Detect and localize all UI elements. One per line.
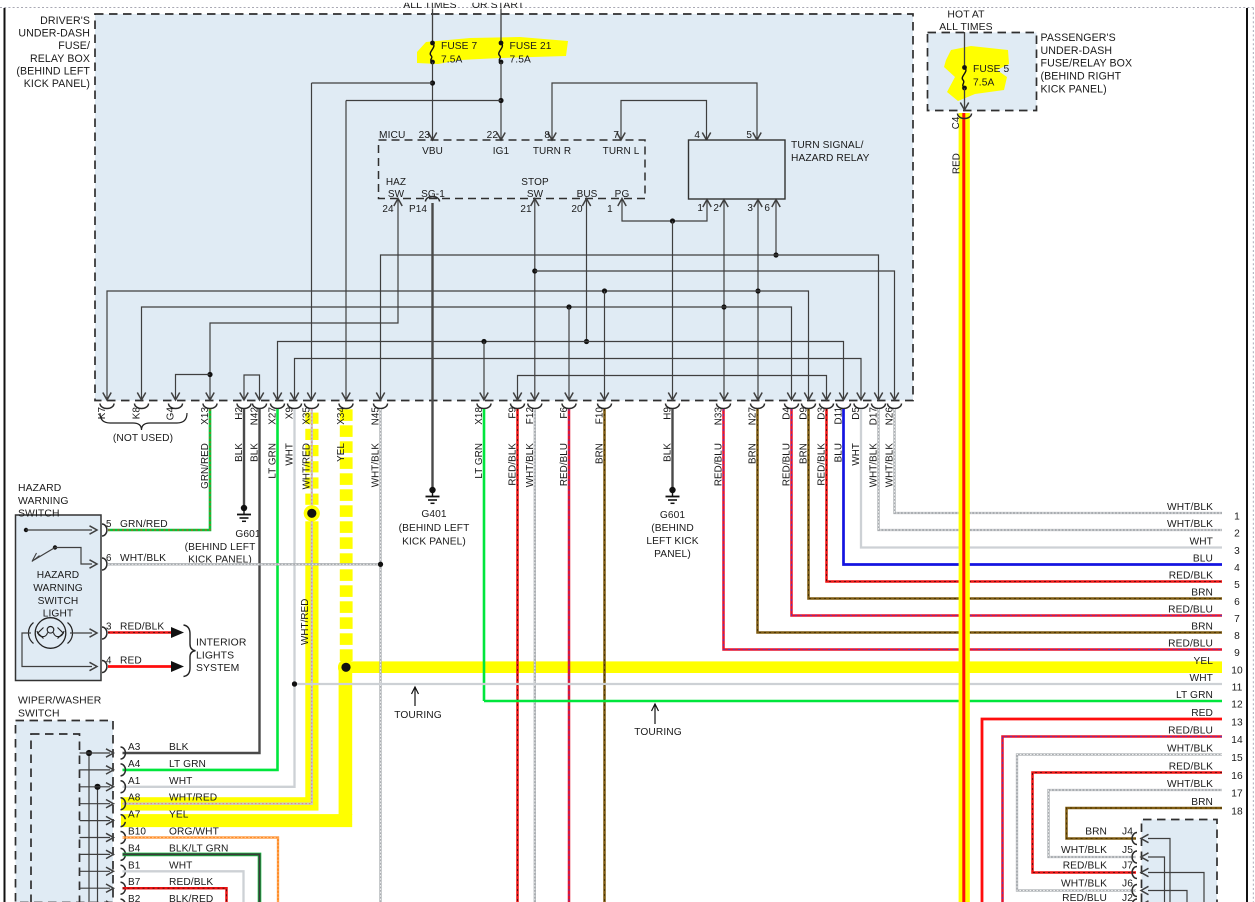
svg-text:K7: K7 [97,407,108,419]
svg-text:WHT/BLK: WHT/BLK [1167,744,1213,755]
svg-text:ALL TIMES: ALL TIMES [939,22,992,33]
connector X34 at fuse box bottom [336,404,353,462]
svg-text:TURN SIGNAL/: TURN SIGNAL/ [791,140,864,151]
highlight: X34 YEL dashed segment [340,409,353,661]
svg-text:(BEHIND LEFT: (BEHIND LEFT [399,523,470,534]
svg-text:UNDER-DASH: UNDER-DASH [1041,45,1113,57]
label: wiper/washer switch [18,696,102,720]
svg-text:J4: J4 [1122,827,1133,838]
svg-text:B1: B1 [128,860,141,871]
MICU (dashed box) [379,140,646,199]
label: driver's under-dash fuse/relay box [16,15,90,90]
svg-text:LT GRN: LT GRN [1176,690,1213,701]
svg-text:K8: K8 [132,407,143,420]
connector F12 at fuse box bottom [525,404,542,488]
wiper/washer switch (dashed boxes) [16,721,114,902]
MICU labels and pin names [379,130,640,215]
highlight: X35 WHT/RED dashed segment [305,413,318,505]
svg-text:SYSTEM: SYSTEM [196,663,239,674]
svg-text:G601: G601 [660,510,686,521]
svg-text:RED/BLK: RED/BLK [1169,762,1213,773]
svg-text:WIPER/WASHER: WIPER/WASHER [18,696,102,707]
svg-text:FUSE 21: FUSE 21 [510,41,552,52]
svg-text:15: 15 [1231,753,1243,764]
svg-text:B10: B10 [128,827,146,838]
svg-text:SG-1: SG-1 [421,189,445,200]
wire hazard pin 4 RED to interior lights system [108,661,184,672]
junction dots redrawn on top [292,562,383,687]
svg-text:HAZ: HAZ [386,177,406,188]
svg-text:RED/BLU: RED/BLU [1168,726,1213,737]
svg-text:FUSE 7: FUSE 7 [441,41,478,52]
highlight splice where X34 joins YEL wire to A7 and row 10 [338,659,354,675]
svg-text:RELAY BOX: RELAY BOX [30,53,90,65]
wire B10 ORG/WHT down off page [123,838,279,902]
svg-text:BLK/RED: BLK/RED [169,894,213,902]
wire F12 WHT/BLK down off page [534,409,536,902]
connector D17 at fuse box bottom [869,404,886,488]
brace and label: interior lights system [184,625,247,677]
connector pin J2 [1062,893,1210,902]
wire row 17 WHT/BLK to J5 [1049,790,1223,857]
svg-text:RED/BLK: RED/BLK [169,877,213,888]
highlight over FUSE 5 [944,46,1009,101]
label TOURING pointing at row 11 [394,687,442,721]
svg-text:TURN R: TURN R [533,146,571,157]
svg-text:C4: C4 [951,116,962,129]
wire RED from C4 down off page (highlighted) [959,113,970,902]
svg-text:22: 22 [487,130,499,141]
svg-text:17: 17 [1231,789,1243,800]
svg-text:PASSENGER'S: PASSENGER'S [1041,32,1116,44]
wire: FUSE 21 to MICU pin 22 IG1, branch to X34 [342,62,505,400]
svg-text:ORG/WHT: ORG/WHT [169,827,219,838]
wire: K8 - F6 - N33 - D4 net [137,304,795,400]
svg-text:YEL: YEL [1193,656,1213,667]
connector N42 at fuse box bottom [250,404,267,462]
svg-text:SWITCH: SWITCH [18,509,60,520]
wire: X27 to X18 and D11 (net with BUS) [273,339,847,400]
wire row 14 RED/BLU to J2 [1003,737,1223,902]
connector F9 at fuse box bottom [508,404,525,486]
svg-text:WHT/BLK: WHT/BLK [1061,879,1107,890]
svg-text:(BEHIND LEFT: (BEHIND LEFT [185,542,256,553]
connector N33 at fuse box bottom [714,404,731,487]
connector K7 at fuse box bottom [97,404,114,420]
svg-text:5: 5 [106,519,112,530]
svg-text:(NOT USED): (NOT USED) [113,433,173,444]
passenger's under-dash fuse/relay box (dashed) [928,33,1037,111]
connector H9 at fuse box bottom [663,404,680,462]
svg-text:LEFT KICK: LEFT KICK [646,536,698,547]
wiper switch pin B10 [80,827,219,844]
svg-text:7: 7 [613,130,619,141]
svg-text:PANEL): PANEL) [654,549,691,560]
svg-text:12: 12 [1231,700,1243,711]
ground G601 right (behind left kick panel) [646,487,698,560]
svg-text:18: 18 [1231,807,1243,818]
connector D3 at fuse box bottom [817,404,834,486]
wiper switch pin B1 [80,860,193,877]
svg-text:A4: A4 [128,759,141,770]
svg-text:G401: G401 [421,509,447,520]
svg-text:UNDER-DASH: UNDER-DASH [18,28,90,40]
hazard warning switch (box) [16,515,102,681]
svg-text:IG1: IG1 [493,146,510,157]
wire F9 RED/BLK down off page [516,409,519,902]
splice dots redrawn on top of wires [304,505,354,675]
highlight over FUSE 7 and FUSE 21 [417,37,568,64]
wiper switch internal bus wires [86,750,101,902]
wire N45 WHT/BLK down off page [378,409,383,902]
wire X35 WHT/RED to wiper switch A8 [123,409,312,804]
svg-text:2: 2 [713,203,719,214]
svg-text:WHT/BLK: WHT/BLK [1061,845,1107,856]
svg-text:J6: J6 [1122,879,1133,890]
svg-text:1: 1 [607,204,613,215]
ground G401 (behind left kick panel) [399,487,470,548]
svg-text:HAZARD RELAY: HAZARD RELAY [791,153,870,164]
svg-text:LIGHTS: LIGHTS [196,651,234,662]
svg-text:A8: A8 [128,793,141,804]
connector X27 at fuse box bottom [268,404,285,479]
wire F10 BRN down off page [603,409,606,902]
svg-text:B7: B7 [128,877,141,888]
svg-text:RED/BLU: RED/BLU [1062,893,1107,902]
fuse F7 (FUSE 7 7.5A) [430,41,477,66]
wire hazard pin 6 WHT/BLK to N45 [108,563,381,565]
highlight: thick YEL wire row 10 and to wiper A7 [121,661,1222,827]
svg-text:J5: J5 [1122,845,1133,856]
connector X18 at fuse box bottom [474,404,491,479]
connector X35 at fuse box bottom [302,404,319,490]
svg-text:16: 16 [1231,771,1243,782]
svg-text:20: 20 [571,204,583,215]
wire B1 WHT down off page [123,871,244,902]
svg-text:A7: A7 [128,810,141,821]
svg-text:BRN: BRN [1191,588,1213,599]
label: hot at all times [939,10,992,34]
connector N45 at fuse box bottom [371,404,388,488]
driver's under-dash fuse/relay box (dashed outline) [95,14,913,401]
junction connector box (dashed, bottom right) [1142,820,1218,902]
wiper switch pin B2 [80,894,214,902]
svg-text:4: 4 [1234,563,1240,574]
svg-text:RED/BLK: RED/BLK [1169,571,1213,582]
svg-text:WHT: WHT [1190,537,1214,548]
wire: FUSE 7 to MICU pin 23 VBU, branch to X35 [307,62,436,400]
wire P14 BLK to ground G401 [431,400,433,487]
wire F6 RED/BLU down off page [568,409,571,902]
wiper switch pin A4 [80,759,207,776]
svg-text:23: 23 [419,130,431,141]
svg-text:RED: RED [1191,708,1213,719]
svg-text:WHT/BLK: WHT/BLK [1167,779,1213,790]
svg-text:HAZARD: HAZARD [18,483,61,494]
svg-text:INTERIOR: INTERIOR [196,638,247,649]
connector G4 at fuse box bottom [166,404,183,421]
wiper switch pin A8 [80,793,218,810]
svg-text:1: 1 [697,203,703,214]
wire row 3 WHT from connector to right edge [861,409,1222,548]
wire row 16 RED/BLK to J7 [1033,773,1223,873]
svg-text:YEL: YEL [336,443,347,462]
connector F10 at fuse box bottom [595,404,612,465]
wire: F9 to D3 net [513,376,830,401]
svg-text:G601: G601 [235,529,261,540]
connector C4 [951,114,972,130]
svg-text:HOT AT: HOT AT [947,10,985,21]
wiper switch pin B4 [80,843,229,860]
svg-text:LT GRN: LT GRN [169,759,206,770]
wire row 5 RED/BLK from connector to right edge [827,409,1223,582]
svg-text:WHT/RED: WHT/RED [169,793,217,804]
connector K8 at fuse box bottom [132,404,149,420]
wire row 4 BLU from connector to right edge [844,409,1223,565]
svg-text:8: 8 [544,130,550,141]
svg-text:TURN L: TURN L [603,146,640,157]
connector X13 at fuse box bottom [200,404,217,489]
svg-text:7.5A: 7.5A [510,55,531,66]
svg-text:BRN: BRN [1085,827,1107,838]
svg-text:SW: SW [388,189,405,200]
svg-text:A3: A3 [128,742,141,753]
svg-text:MICU: MICU [379,130,405,141]
svg-text:P14: P14 [409,204,427,215]
wire N42 BLK to wiper switch A3 [123,409,260,753]
wire row 11 WHT from X9 junction to right edge [295,683,1223,685]
wire X9 WHT to wiper switch A1 and row 11 [123,409,298,787]
svg-text:(BEHIND RIGHT: (BEHIND RIGHT [1041,71,1122,83]
wire row 8 BRN from connector to right edge [758,409,1223,633]
wire H9 BLK to ground G601 right [671,409,673,487]
wire: relay pin 2 to N33 [720,200,728,401]
connector N27 at fuse box bottom [748,404,765,465]
label TOURING pointing at row 12 [634,704,682,738]
svg-text:TOURING: TOURING [634,727,682,738]
svg-text:VBU: VBU [422,146,443,157]
svg-text:5: 5 [1234,580,1240,591]
connector pin J7 [1063,861,1204,902]
svg-text:B2: B2 [128,894,141,902]
wire B4 BLK/LT GRN down off page [123,854,260,902]
connector N26 at fuse box bottom [885,404,902,488]
wire hazard pin 3 RED/BLK to interior lights system [108,627,184,638]
relay pin numbers [694,130,770,214]
wiper switch pin A1 [80,776,193,793]
svg-text:1: 1 [1234,512,1240,523]
hazard switch pin connectors 5 6 3 4 [102,524,107,673]
connector D11 at fuse box bottom [834,404,851,463]
svg-text:BLU: BLU [1193,554,1213,565]
svg-text:KICK PANEL): KICK PANEL) [24,78,90,90]
hazard pin labels [106,519,168,667]
wiper switch pin B7 [80,877,214,894]
svg-text:RED: RED [120,656,142,667]
wire: X9 to D5 net [290,359,865,401]
fuse F21 (FUSE 21 7.5A) [499,41,552,66]
connector F6 at fuse box bottom [559,404,576,487]
wire row 9 RED/BLU from connector to right edge [724,409,1223,650]
wire H2 BLK to ground G601 [243,409,245,505]
svg-text:WHT: WHT [1190,673,1214,684]
turn signal/hazard relay (box) [689,140,786,199]
svg-text:4: 4 [694,130,700,141]
svg-text:YEL: YEL [169,810,189,821]
label: hazard warning switch light [33,570,83,620]
wire: MICU TURN L (7) to relay pin 4 [617,101,711,141]
wire: MICU STOP SW 21 to F12 and N26 [531,199,899,401]
row labels 1-18 [1167,502,1243,818]
connector pin J5 [1061,845,1164,902]
svg-text:J2: J2 [1122,893,1133,902]
svg-text:KICK PANEL): KICK PANEL) [1041,83,1107,95]
wire: H2-N42 jumper [240,375,264,400]
svg-text:WARNING: WARNING [33,583,83,594]
svg-text:6: 6 [1234,597,1240,608]
wire X18 LT GRN to row 12 [483,409,486,701]
svg-text:RED/BLK: RED/BLK [1063,861,1107,872]
svg-text:2: 2 [1234,529,1240,540]
svg-text:RED/BLK: RED/BLK [120,622,164,633]
svg-text:10: 10 [1231,666,1243,677]
svg-text:SWITCH: SWITCH [18,709,60,720]
svg-text:J7: J7 [1122,861,1133,872]
svg-text:FUSE/RELAY BOX: FUSE/RELAY BOX [1041,58,1133,70]
hazard switch lever and pin 6 path [32,545,97,568]
wire row 13 RED from below to right edge [982,719,1222,902]
svg-text:11: 11 [1232,683,1243,694]
connector pin J6 [1061,879,1187,902]
wire: MICU HAZ SW 24 to X13 and G4 [171,199,402,401]
svg-text:6: 6 [106,553,112,564]
svg-text:4: 4 [106,656,112,667]
brace and label (NOT USED) for K7 K8 G4 [100,413,187,444]
svg-text:8: 8 [1234,631,1240,642]
svg-text:6: 6 [764,203,770,214]
svg-text:FUSE/: FUSE/ [58,40,90,52]
svg-text:SWITCH: SWITCH [38,596,79,607]
wire row 12 LT GRN from X18 to right edge [484,700,1222,703]
highlight: X35/A8 WHT/RED solid segment [121,521,319,810]
svg-text:KICK PANEL): KICK PANEL) [402,537,466,548]
highlight splice on X35 wire [304,505,320,521]
connector pin J4 [1085,827,1170,902]
svg-text:STOP: STOP [521,177,549,188]
svg-text:14: 14 [1231,735,1243,746]
svg-text:WHT: WHT [169,776,193,787]
svg-text:FUSE 5: FUSE 5 [973,64,1010,75]
svg-text:13: 13 [1231,718,1243,729]
svg-text:WHT/BLK: WHT/BLK [1167,519,1213,530]
svg-text:24: 24 [382,204,394,215]
wiper switch pin A3 [80,742,189,759]
label: passenger's under-dash fuse/relay box [1041,32,1133,95]
svg-text:7.5A: 7.5A [441,55,462,66]
svg-text:WARNING: WARNING [18,496,69,507]
svg-text:(BEHIND LEFT: (BEHIND LEFT [16,65,90,77]
svg-text:3: 3 [106,622,112,633]
wire A7 YEL (under highlight) [123,819,341,822]
cut-off feed labels (HOT AT ALL TIMES / HOT IN ON OR START) [0,0,1255,11]
svg-text:A1: A1 [128,776,141,787]
connector D5 at fuse box bottom [851,404,868,466]
wire row 1 WHT/BLK from connector to right edge [895,409,1223,513]
wire X13 GRN/RED to hazard switch pin 5 [108,409,210,530]
svg-text:BRN: BRN [1191,622,1213,633]
wire: SG-1 P14 black wire through box [426,196,440,400]
wire: MICU BUS 20 to X27/X18/D11 net [582,199,590,345]
svg-text:WHT/BLK: WHT/BLK [1167,502,1213,513]
svg-text:WHT/BLK: WHT/BLK [120,553,166,564]
wire row 15 WHT/BLK to J6 [1017,755,1222,891]
svg-text:5: 5 [746,130,752,141]
connector H2 at fuse box bottom [234,404,251,462]
wire: HOT AT ALL TIMES feed to FUSE 7 [432,9,434,43]
svg-text:(BEHIND: (BEHIND [651,523,694,534]
wire row 6 BRN from connector to right edge [809,409,1223,599]
svg-text:G4: G4 [166,407,177,421]
svg-text:GRN/RED: GRN/RED [120,519,168,530]
svg-text:RED: RED [952,153,963,174]
label: turn signal/hazard relay [791,140,870,164]
connector D9 at fuse box bottom [799,404,816,465]
wire X27 LT GRN to wiper switch A4 [123,409,278,770]
svg-text:7.5A: 7.5A [973,78,994,89]
bulb wiring to pins 3 and 4 [22,629,97,671]
svg-text:3: 3 [1234,546,1240,557]
svg-text:RED/BLU: RED/BLU [1168,639,1213,650]
wire B7 RED/BLK down off page [123,888,227,902]
wire: FUSE 5 to connector C4 [960,88,968,110]
wire: hot at all times to FUSE 5 [964,32,966,67]
svg-text:7: 7 [1234,614,1240,625]
connector X9 at fuse box bottom [285,404,302,466]
hazard warning switch light bulb [28,618,72,649]
svg-text:3: 3 [747,203,753,214]
wiper switch pin A7 [80,810,189,827]
label RED on C4 wire [952,153,963,174]
label: hazard warning switch [18,483,69,520]
wire: K7 - F10 - D9 net [103,288,813,400]
wire: MICU TURN R (8) to relay pin 5 [548,83,761,140]
label WHT/RED on X35 wire lower segment [300,599,311,645]
svg-text:WHT/RED: WHT/RED [300,599,311,645]
hazard switch internal contact to pin 5 [24,526,97,534]
wire row 18 BRN to J4 [1067,808,1223,839]
svg-text:HAZARD: HAZARD [37,570,79,581]
svg-text:RED/BLU: RED/BLU [1168,605,1213,616]
wire: relay pin 6 to N45 and D17 [376,200,882,401]
svg-text:TOURING: TOURING [394,710,442,721]
svg-text:X34: X34 [336,407,347,425]
connector D4 at fuse box bottom [782,404,799,487]
svg-text:DRIVER'S: DRIVER'S [40,15,90,27]
wire: HOT IN ON OR START feed to FUSE 21 [500,9,502,43]
wire row 7 RED/BLU from connector to right edge [792,409,1223,616]
fuse F5 (FUSE 5 7.5A) [962,64,1009,90]
svg-text:BLK: BLK [169,742,189,753]
wire row 2 WHT/BLK from connector to right edge [879,409,1223,530]
svg-text:WHT: WHT [169,860,193,871]
svg-text:9: 9 [1234,648,1240,659]
svg-text:BRN: BRN [1191,797,1213,808]
ground G601 (behind left kick panel) [185,505,261,566]
wire: relay pin 3 to N27 [754,200,762,401]
wire: MICU PG 1 to relay pin 1 and H9 ground [618,199,711,401]
